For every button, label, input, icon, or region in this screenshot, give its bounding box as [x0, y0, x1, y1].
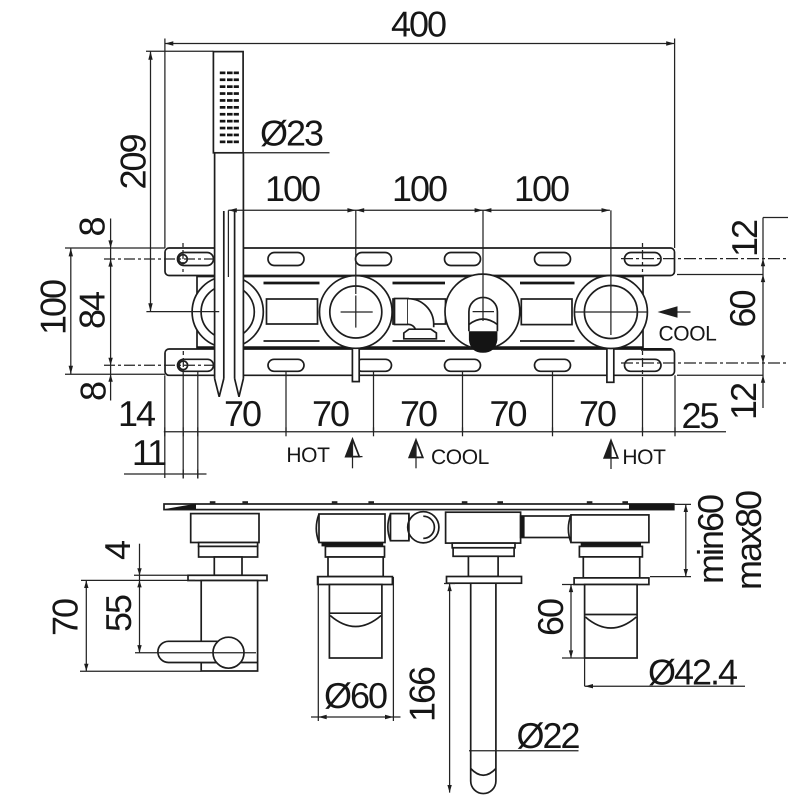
holder body inner line: [201, 662, 257, 664]
spout lip: [452, 543, 515, 548]
top bar slot 1: [178, 253, 214, 266]
cartridge4 window line: [585, 614, 638, 616]
top mounting bar: [165, 248, 675, 276]
svg-text:70: 70: [489, 393, 526, 434]
elbow barrel: [391, 514, 409, 541]
svg-text:HOT: HOT: [286, 444, 330, 467]
tube bridge rect between valve2-valve3: [393, 299, 446, 324]
svg-text:55: 55: [98, 595, 139, 632]
dim 4-55 line: [139, 544, 141, 653]
spout pipe bottom cap: [471, 781, 496, 794]
spout elbow inner bend: [408, 324, 416, 329]
right extension slot6 top centerline: [621, 258, 789, 260]
wall plate: [164, 504, 674, 510]
spout pipe left wall: [470, 583, 472, 781]
valve 4 stem: [607, 336, 614, 382]
valve 3 outer circle: [445, 274, 520, 349]
left extension slot1 bottom centerline: [104, 364, 216, 366]
valve 3 inner arc: [469, 319, 497, 325]
cartridge2 block left cap: [316, 514, 319, 543]
spout elbow outer bend: [408, 299, 434, 328]
HOT arrow 1: [346, 439, 353, 456]
cartridge2 dark lip: [322, 543, 384, 547]
HOT arrow 3: [604, 441, 611, 458]
cartridge4 escutcheon: [574, 578, 649, 585]
svg-text:8: 8: [73, 382, 114, 401]
svg-text:400: 400: [391, 4, 446, 45]
holder stem: [214, 557, 242, 575]
valve 4 outer circle: [574, 276, 647, 349]
right extension slot6 bottom centerline: [621, 362, 789, 364]
hose outlet capsule: [158, 641, 229, 662]
valve 2 cross horizontal: [341, 311, 373, 313]
bottom bar slot 1: [178, 359, 214, 371]
dim 400 left extension: [164, 39, 166, 249]
svg-text:25: 25: [681, 395, 718, 436]
tube dark upper line segments: [264, 282, 575, 285]
svg-text:70: 70: [400, 393, 437, 434]
svg-text:84: 84: [72, 292, 113, 329]
svg-text:COOL: COOL: [659, 323, 717, 346]
spout pipe right wall: [495, 583, 497, 781]
svg-text:12: 12: [724, 220, 765, 257]
dim D60 left extension: [317, 577, 319, 721]
cartridge2 window arc: [330, 616, 381, 627]
wall plate left wedge: [164, 504, 196, 510]
dim D42.4 line: [585, 685, 745, 687]
bottom bar dark top edge right: [641, 348, 672, 351]
right dim top end line: [763, 217, 788, 219]
bottom row extensions: [165, 371, 675, 478]
valve 1 inner circle: [201, 285, 254, 338]
svg-text:60: 60: [722, 291, 763, 328]
spout elbow flange: [395, 299, 409, 325]
spout flange: [453, 548, 514, 557]
hose white band: [215, 153, 244, 379]
svg-text:14: 14: [118, 393, 155, 434]
slot6 top vertical dash: [642, 243, 644, 272]
slot1 top vertical dash: [182, 243, 184, 272]
holder centerline: [135, 652, 256, 654]
dim 60 side extensions: [562, 584, 574, 586]
spout neck: [468, 556, 498, 576]
shower head body: [213, 52, 243, 153]
hose inner left line: [223, 211, 225, 379]
cartridge4 dark lip: [581, 543, 641, 547]
top bar slot 1 screw circle: [179, 255, 188, 264]
dim 100x3 line: [228, 209, 610, 211]
dim D23 leader: [214, 152, 330, 154]
spout pipe inner bottom: [471, 769, 496, 776]
dim D22 leader: [469, 750, 579, 752]
left dim 8-84-8 line: [110, 219, 112, 401]
cartridge4 flange: [579, 546, 642, 557]
svg-text:12: 12: [723, 383, 764, 420]
valve 2 centerline: [355, 210, 357, 294]
svg-text:4: 4: [97, 541, 138, 560]
dim D42.4 extension: [584, 658, 586, 686]
bottom bar slot 1 screw circle: [179, 361, 188, 370]
elbow barrel left cap: [388, 514, 391, 541]
valve 2 inner circle: [330, 286, 382, 338]
spout elbow base: [404, 329, 437, 339]
cartridge4 cylinder: [585, 585, 638, 659]
bottom bar slot 6: [625, 359, 662, 371]
shower head spray face hatch: [220, 72, 239, 144]
valve 3 spout socket dome: [469, 297, 498, 331]
spout block: [446, 512, 521, 543]
SIDE VIEW: [135, 501, 674, 793]
min60-max80 bottom extension: [650, 576, 691, 578]
dim 209 top extension: [146, 50, 213, 52]
SIDE VIEW DIMENSIONS: [45, 491, 770, 793]
left extension slot1 top centerline: [104, 258, 216, 260]
tube lower line segments: [264, 340, 575, 342]
holder body: [201, 581, 257, 672]
body bottom thick edge: [197, 346, 643, 349]
COOL inlet arrow: [658, 306, 678, 318]
svg-text:70: 70: [579, 393, 616, 434]
wall plate tabs: [210, 501, 628, 504]
valve 3 dark outlet: [469, 331, 498, 353]
bottom bar slot 3: [356, 359, 392, 371]
slot1 bottom vertical dash: [182, 351, 184, 371]
right dim line: [762, 218, 764, 409]
svg-text:70: 70: [312, 393, 349, 434]
valve 2 stem: [352, 336, 359, 382]
dim 209 line: [150, 51, 152, 311]
bottom mounting bar: [165, 349, 675, 375]
svg-text:60: 60: [530, 599, 571, 636]
valve 1 outer circle: [192, 276, 263, 347]
svg-text:COOL: COOL: [431, 446, 489, 469]
top bar slot 3: [356, 253, 392, 266]
bottom bar slot 2: [268, 359, 304, 371]
svg-text:100: 100: [265, 168, 320, 209]
dim 60 side line: [570, 585, 572, 659]
min60-max80 top extension: [674, 503, 691, 505]
bottom row ticks: [165, 427, 675, 436]
top bar slot 6: [625, 253, 662, 266]
valve 2 outer circle: [320, 276, 393, 349]
left dim 100 line: [70, 248, 72, 374]
hose attachment circle: [213, 637, 244, 668]
top bar slot 5: [535, 253, 571, 266]
left extension bar bottom: [65, 373, 165, 375]
svg-text:100: 100: [514, 168, 569, 209]
slot6 bottom vertical dash: [642, 351, 644, 383]
FRONT VIEW: [165, 52, 675, 397]
valve 3 centerline: [482, 210, 484, 321]
dim 4 extension top: [134, 574, 188, 576]
dim 70 bottom extension: [80, 670, 201, 672]
bottom bar slot 4: [445, 359, 481, 371]
bridge tube dark cap: [521, 516, 525, 538]
holder block: [191, 514, 259, 543]
svg-text:209: 209: [113, 134, 154, 189]
hose outer right line: [242, 153, 244, 379]
svg-text:max80: max80: [728, 491, 769, 590]
svg-text:70: 70: [224, 393, 261, 434]
cartridge2 cylinder: [329, 585, 382, 659]
cartridge2 block: [319, 514, 385, 543]
dim 166 line: [449, 584, 451, 793]
cartridge4 block: [571, 515, 649, 543]
svg-text:Ø60: Ø60: [324, 675, 387, 716]
elbow inner arc: [423, 516, 434, 538]
svg-text:100: 100: [33, 280, 74, 335]
dim 400 right extension: [674, 39, 676, 249]
svg-text:min60: min60: [690, 495, 731, 584]
valve 4 centerline: [610, 210, 612, 335]
valve 3 dome chord: [473, 311, 494, 313]
right extension bar step bottom: [677, 374, 763, 376]
svg-text:11: 11: [132, 432, 166, 473]
tube bridge rect between valve3-valve4: [521, 299, 572, 325]
valve 1 centerline vertical: [227, 210, 229, 277]
dim 400 line: [165, 43, 675, 45]
holder flange: [199, 546, 258, 557]
hose outer left line: [214, 153, 216, 379]
dim D60 right extension: [392, 577, 394, 721]
elbow circle: [408, 512, 439, 543]
svg-text:8: 8: [72, 218, 113, 237]
hose left tip: [215, 379, 224, 397]
cartridge4 neck: [583, 557, 639, 578]
svg-text:70: 70: [45, 599, 86, 636]
right extension bar step top: [677, 274, 763, 276]
left extension bar top: [65, 247, 165, 249]
cartridge4 window arc: [585, 617, 636, 628]
dim 70/4 shared extension: [81, 579, 195, 581]
cartridge2 neck: [328, 557, 383, 577]
cartridge2 escutcheon: [318, 577, 393, 585]
elbow junction line: [408, 515, 410, 541]
tube bridge rect between valve1-valve2: [267, 299, 318, 324]
valve 4 inner circle: [584, 286, 637, 339]
main body: [197, 277, 643, 349]
cartridge2 window line: [329, 612, 382, 614]
top bar slot 2: [268, 253, 304, 266]
holder escutcheon: [188, 575, 267, 580]
dim 11 line: [124, 473, 207, 475]
dim 166 top extension: [444, 583, 455, 585]
dim 70 side line: [85, 580, 87, 671]
bridge tube side: [521, 516, 572, 538]
svg-text:Ø23: Ø23: [260, 113, 323, 154]
hose inner right line: [234, 211, 236, 379]
hose right tip: [235, 379, 244, 397]
cartridge2 flange: [325, 546, 384, 557]
FRONT VIEW DIMENSIONS: [33, 4, 790, 479]
svg-text:166: 166: [402, 667, 443, 722]
spout escutcheon: [447, 577, 522, 584]
bottom bar slot 5: [535, 359, 571, 371]
valve 2 cross vertical: [355, 296, 357, 328]
valve 1 centerline horizontal: [146, 311, 219, 313]
bottom row dim line: [164, 431, 726, 433]
holder lip: [199, 543, 258, 547]
top bar slot 4: [445, 253, 481, 266]
svg-text:Ø42.4: Ø42.4: [648, 652, 737, 693]
COOL arrow 2: [409, 440, 416, 457]
wall plate right dark end: [629, 504, 674, 510]
dim min60-max80 line: [685, 504, 687, 576]
cartridge4 block left cap: [568, 515, 571, 543]
valve 4 centerline horizontal: [575, 311, 649, 313]
svg-text:HOT: HOT: [622, 446, 666, 469]
svg-text:Ø22: Ø22: [516, 715, 579, 756]
svg-text:100: 100: [392, 168, 447, 209]
dim D60 line: [311, 716, 401, 718]
